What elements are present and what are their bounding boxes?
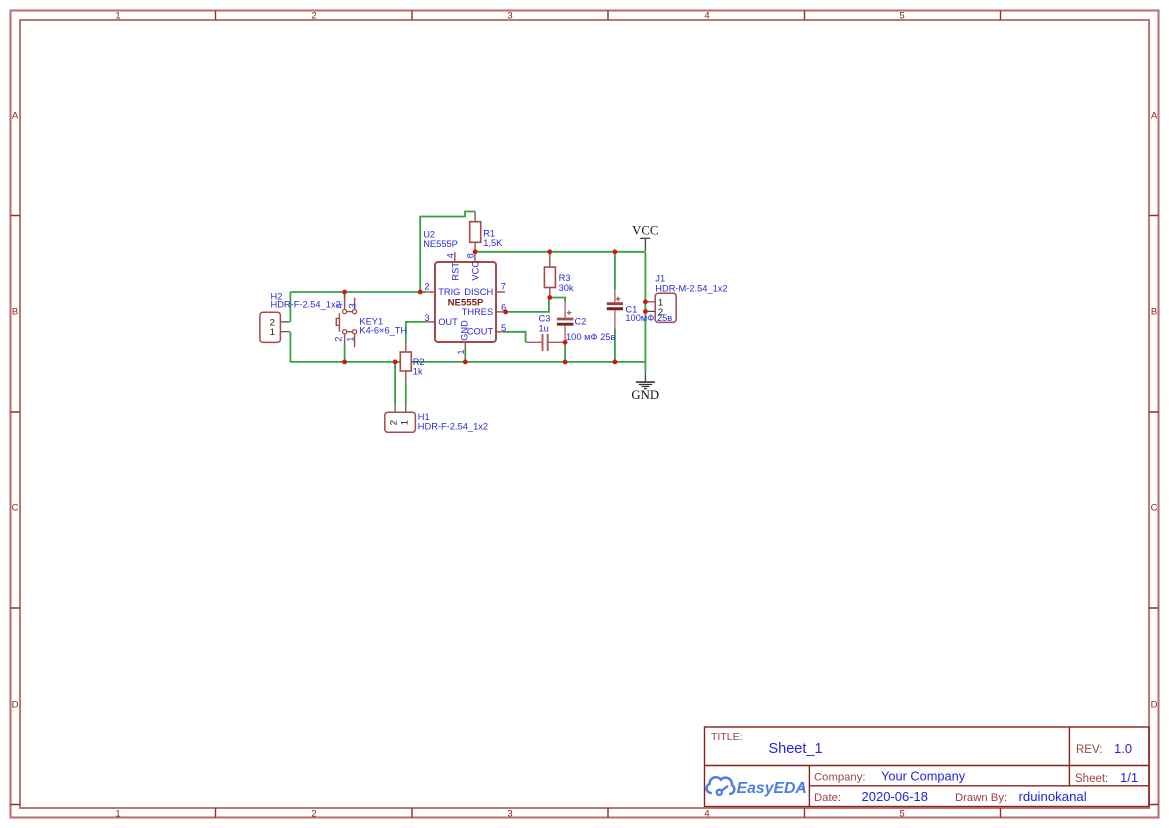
junction: R3 bottom node <box>547 295 552 300</box>
svg-text:C2: C2 <box>575 317 587 327</box>
svg-text:HDR-M-2.54_1x2: HDR-M-2.54_1x2 <box>655 284 727 294</box>
wire: COUT to C3 left <box>503 332 526 343</box>
svg-text:2: 2 <box>424 281 429 291</box>
svg-text:3: 3 <box>507 809 512 820</box>
KEY1 actuator button notch <box>336 318 339 325</box>
wire: GND rail to H1 pin2 <box>394 362 396 404</box>
svg-text:OUT: OUT <box>438 317 458 327</box>
wire: H2 pin1 to GND rail <box>289 332 291 362</box>
svg-text:R2: R2 <box>413 357 425 367</box>
junction: J1 pin2 on VCC column <box>643 309 648 314</box>
wire: KEY1 top stub <box>344 292 346 298</box>
junction: C2 bottom on GND rail <box>563 360 568 365</box>
svg-text:100 мФ 25в: 100 мФ 25в <box>566 332 615 342</box>
J1 pin leads <box>646 302 655 312</box>
svg-text:2: 2 <box>311 809 316 820</box>
svg-text:rduinokanal: rduinokanal <box>1019 789 1087 804</box>
svg-text:3: 3 <box>424 313 429 323</box>
svg-text:R3: R3 <box>559 273 571 283</box>
junction: U2 pin1 on GND rail <box>463 360 468 365</box>
junction: J1 pin1 on VCC column <box>643 299 648 304</box>
svg-text:30k: 30k <box>559 283 574 293</box>
svg-text:HDR-F-2.54_1x2: HDR-F-2.54_1x2 <box>271 299 341 309</box>
svg-text:R1: R1 <box>483 228 495 238</box>
svg-text:TRIG: TRIG <box>438 287 460 297</box>
EasyEDA logo <box>707 777 807 797</box>
J1 body <box>655 293 676 322</box>
svg-text:C: C <box>1151 503 1158 514</box>
H2 body <box>260 312 281 342</box>
svg-text:5: 5 <box>899 11 904 22</box>
connector J1 <box>646 274 727 323</box>
wire: C1 bottom stub <box>614 328 616 362</box>
wire: R2 bottom to H1 pin1 <box>405 383 407 404</box>
KEY1 contact bars <box>347 312 352 332</box>
ground GND symbol <box>631 372 659 402</box>
svg-text:Drawn By:: Drawn By: <box>955 792 1007 804</box>
junction: U2 pin8 / R1 on VCC net <box>473 249 478 254</box>
svg-text:D: D <box>1151 700 1158 711</box>
wire: H2 pin2 stub <box>289 292 291 322</box>
KEY1 pin 1 lead <box>354 334 356 347</box>
wire: R3 bottom to C2 top <box>550 298 565 302</box>
svg-text:1.0: 1.0 <box>1114 741 1132 756</box>
H1 pin leads <box>395 404 406 412</box>
svg-text:GND: GND <box>631 388 659 402</box>
svg-text:Sheet_1: Sheet_1 <box>769 741 823 757</box>
svg-text:D: D <box>12 700 19 711</box>
svg-text:B: B <box>12 307 18 318</box>
capacitor C2 (electrolytic) <box>557 302 616 343</box>
svg-text:3: 3 <box>347 303 357 308</box>
svg-text:2: 2 <box>311 11 316 22</box>
connector H1 <box>385 404 488 432</box>
capacitor C1 (electrolytic) <box>607 290 623 329</box>
wire: THRES to R3 bottom <box>506 298 549 312</box>
svg-text:Company:: Company: <box>814 772 866 784</box>
wire: C1 top stub <box>614 252 616 290</box>
connector H2 <box>260 292 341 343</box>
svg-text:3: 3 <box>507 11 512 22</box>
wire: R1 top to pin4 net jog to TRIG column <box>420 212 475 293</box>
svg-text:Date:: Date: <box>814 792 841 804</box>
capacitor C1 value labels <box>625 305 672 323</box>
resistor R1 <box>470 212 503 252</box>
pushbutton KEY1 <box>333 293 407 347</box>
wire: C2 bottom to rail <box>564 342 566 362</box>
svg-text:TITLE:: TITLE: <box>711 731 743 743</box>
svg-text:1k: 1k <box>413 367 423 377</box>
junction: R3 top on VCC net <box>547 249 552 254</box>
wire: KEY1 bottom stub <box>344 344 346 362</box>
svg-text:NE555P: NE555P <box>423 239 458 249</box>
wires (green) <box>290 212 645 405</box>
svg-text:A: A <box>1151 111 1158 122</box>
svg-text:H1: H1 <box>418 412 430 422</box>
KEY1 actuator bar <box>338 313 340 331</box>
svg-text:A: A <box>12 111 19 122</box>
svg-text:5: 5 <box>899 809 904 820</box>
KEY1 pin 4 lead <box>354 298 356 310</box>
H1 body <box>385 412 416 432</box>
svg-text:C: C <box>12 503 19 514</box>
svg-text:HDR-F-2.54_1x2: HDR-F-2.54_1x2 <box>418 422 488 432</box>
svg-text:1,5K: 1,5K <box>483 238 503 248</box>
H2 pin leads <box>280 322 289 332</box>
svg-text:1u: 1u <box>539 324 549 334</box>
wire: R3 top stub <box>549 252 551 258</box>
KEY1 contact circle (pin 1) <box>353 330 357 334</box>
svg-text:U2: U2 <box>423 230 435 240</box>
wire: IC pin1 to rail <box>464 348 466 362</box>
svg-text:1: 1 <box>115 11 120 22</box>
KEY1 contact circle (pin 2) <box>343 330 347 334</box>
svg-text:VCC: VCC <box>470 261 480 281</box>
svg-text:Your Company: Your Company <box>881 769 966 784</box>
svg-text:1/1: 1/1 <box>1120 770 1138 785</box>
svg-text:1: 1 <box>115 809 120 820</box>
svg-text:Sheet:: Sheet: <box>1075 773 1108 785</box>
resistor R2 <box>400 343 424 383</box>
KEY1 pin 2 lead <box>344 334 346 344</box>
svg-text:1: 1 <box>345 337 355 342</box>
svg-text:DISCH: DISCH <box>464 287 493 297</box>
wire: OUT to R2 top <box>406 322 426 343</box>
svg-text:VCC: VCC <box>632 223 658 237</box>
junction: C2/C3 node <box>563 340 568 345</box>
junction: H1 pin2 on GND rail <box>393 360 398 365</box>
U2 pin leads <box>426 252 506 348</box>
wire: GND bottom rail <box>290 361 645 363</box>
wire: VCC top rail <box>475 251 645 253</box>
wire: VCC column down to GND <box>644 252 646 372</box>
svg-text:B: B <box>1151 307 1157 318</box>
junction: C1 top on VCC net <box>613 249 618 254</box>
svg-text:NE555P: NE555P <box>448 298 484 309</box>
junction: U2 pin6 THRES node <box>503 310 508 315</box>
svg-text:4: 4 <box>704 11 709 22</box>
svg-text:4: 4 <box>446 253 456 258</box>
title block <box>705 727 1150 807</box>
junction: TRIG column node <box>418 290 423 295</box>
svg-text:RST: RST <box>450 262 460 281</box>
junction: KEY1 pin3 on TRIG net <box>342 290 347 295</box>
resistor R3 <box>544 258 574 298</box>
svg-text:2: 2 <box>388 420 399 425</box>
IC U2 NE555P (555 timer) <box>423 230 506 355</box>
svg-text:J1: J1 <box>655 274 665 284</box>
svg-text:1: 1 <box>456 349 466 354</box>
junction: KEY1 pin2 on GND rail <box>342 360 347 365</box>
svg-text:7: 7 <box>501 281 506 291</box>
svg-text:2020-06-18: 2020-06-18 <box>862 789 929 804</box>
svg-text:K4-6×6_TH: K4-6×6_TH <box>359 325 407 335</box>
capacitor C3 <box>526 314 566 351</box>
svg-text:8: 8 <box>466 253 476 258</box>
svg-text:1: 1 <box>270 327 275 338</box>
svg-text:COUT: COUT <box>467 327 494 337</box>
KEY1 contact circle (pin 3) <box>343 310 347 314</box>
wire: TRIG net horizontal <box>290 291 426 293</box>
junction: C1 bottom on GND rail <box>613 360 618 365</box>
KEY1 pin 3 lead <box>344 293 346 310</box>
svg-text:5: 5 <box>501 323 506 333</box>
svg-text:2: 2 <box>333 337 343 342</box>
KEY1 contact circle (pin 4) <box>353 310 357 314</box>
svg-text:REV:: REV: <box>1076 744 1102 756</box>
svg-text:1: 1 <box>400 420 411 425</box>
VCC power symbol <box>632 223 658 251</box>
svg-text:EasyEDA: EasyEDA <box>737 780 807 797</box>
svg-text:4: 4 <box>704 809 709 820</box>
svg-text:C3: C3 <box>539 314 551 324</box>
svg-text:100мФ 25в: 100мФ 25в <box>625 313 672 323</box>
